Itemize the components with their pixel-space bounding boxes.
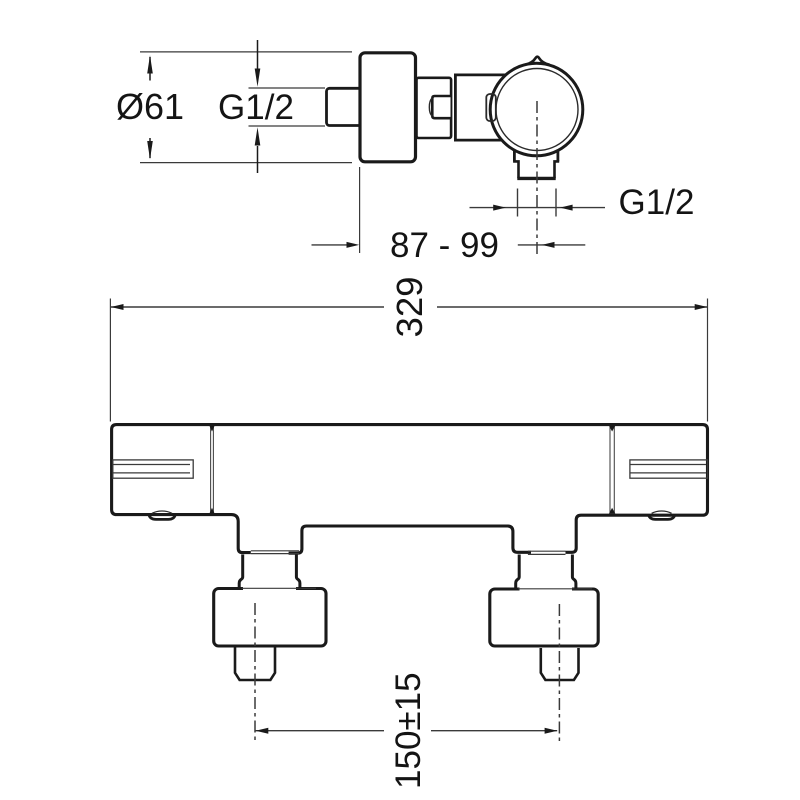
svg-text:G1/2: G1/2 xyxy=(218,88,294,127)
left neck xyxy=(239,555,300,589)
svg-text:87 - 99: 87 - 99 xyxy=(390,226,499,265)
slot right cap xyxy=(630,460,708,478)
right stem xyxy=(541,648,579,680)
left knob flange xyxy=(214,589,326,647)
outlet step left xyxy=(513,161,518,178)
tick G1/2 left xyxy=(517,189,519,217)
foot right xyxy=(652,511,672,513)
top bump on cap xyxy=(525,57,550,65)
clip bracket on cap edge xyxy=(486,94,496,121)
svg-text:G1/2: G1/2 xyxy=(619,183,695,222)
centerline outlet vertical xyxy=(536,101,538,256)
dimension 87-99 right line xyxy=(518,244,586,246)
inner circle cap xyxy=(496,69,578,151)
foot left xyxy=(152,511,172,513)
nipple end arc xyxy=(429,98,432,116)
extension line front right xyxy=(707,299,709,422)
dimension 329 line xyxy=(111,306,708,308)
adapter nipple xyxy=(432,96,450,118)
extension line pipe top xyxy=(249,87,326,89)
dimension 87-99 left line xyxy=(312,244,349,246)
dimension G1/2 top arrow down xyxy=(257,40,259,69)
extension line front left xyxy=(109,299,111,422)
dimension G1/2 outlet line xyxy=(470,207,606,209)
escutcheon flange xyxy=(360,53,416,162)
dimension Ø61 arrow down xyxy=(149,138,151,158)
adapter block xyxy=(417,78,452,138)
dimension G1/2 top arrow up xyxy=(257,146,259,173)
extension line bottom of escutcheon xyxy=(140,162,352,164)
left axis dashed xyxy=(254,603,256,744)
outer circle cap xyxy=(490,63,583,156)
arrow right-pointing xyxy=(493,205,506,211)
cartridge lip left (thin band) xyxy=(251,551,299,554)
outlet collar left edge xyxy=(513,147,516,161)
inlet pipe G1/2 xyxy=(327,88,362,125)
slot left cap xyxy=(113,460,193,478)
dimension 150±15 line xyxy=(256,730,558,732)
outlet nipple bottom xyxy=(517,177,555,180)
arrow left-pointing xyxy=(560,205,573,211)
label 150±15 xyxy=(389,672,428,789)
svg-text:150±15: 150±15 xyxy=(389,672,428,789)
left stem xyxy=(235,648,275,681)
right axis dashed xyxy=(558,604,560,744)
outlet step right xyxy=(555,161,560,178)
seam left cap xyxy=(211,427,214,514)
label 329 xyxy=(389,277,430,338)
cartridge lip right (thin band) xyxy=(528,551,566,554)
front body outline xyxy=(112,425,708,554)
dimension Ø61 arrow up xyxy=(149,57,151,81)
extension line from escutcheon left xyxy=(359,167,361,253)
svg-text:Ø61: Ø61 xyxy=(116,86,184,127)
outlet collar right edge xyxy=(557,147,560,161)
seam right cap xyxy=(610,427,614,514)
tick G1/2 right xyxy=(555,189,557,217)
right neck xyxy=(516,555,576,589)
right knob flange xyxy=(490,589,598,646)
extension line pipe bottom xyxy=(249,125,326,127)
extension line top of escutcheon xyxy=(140,51,352,53)
valve body xyxy=(455,75,538,140)
svg-text:329: 329 xyxy=(389,277,430,338)
